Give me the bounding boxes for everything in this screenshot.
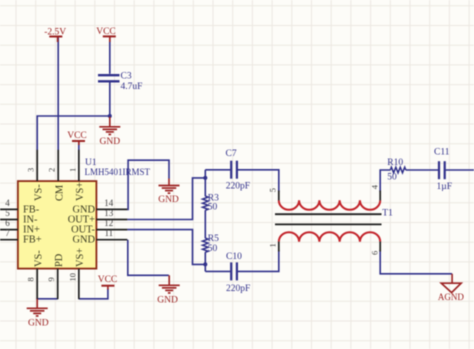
svg-text:10: 10 (67, 273, 77, 282)
svg-text:T1: T1 (382, 209, 393, 219)
svg-text:4.7uF: 4.7uF (121, 82, 143, 92)
svg-text:2: 2 (47, 168, 57, 172)
svg-text:FB+: FB+ (23, 235, 42, 246)
svg-text:11: 11 (104, 228, 113, 238)
svg-text:GND: GND (28, 319, 49, 329)
svg-text:12: 12 (104, 218, 113, 228)
svg-text:7: 7 (5, 228, 10, 238)
svg-text:4: 4 (5, 198, 10, 208)
svg-text:1: 1 (267, 243, 277, 247)
svg-text:5: 5 (267, 188, 277, 192)
svg-text:VCC: VCC (67, 131, 87, 141)
svg-text:13: 13 (104, 208, 114, 218)
svg-text:GND: GND (100, 137, 121, 147)
svg-text:50: 50 (208, 244, 218, 254)
svg-text:VCC: VCC (96, 27, 116, 37)
svg-text:CM: CM (54, 185, 65, 201)
svg-text:VCC: VCC (98, 275, 118, 285)
svg-text:3: 3 (26, 168, 36, 172)
svg-text:C3: C3 (121, 72, 132, 82)
svg-text:6: 6 (370, 251, 380, 255)
svg-text:GND: GND (157, 296, 178, 306)
svg-text:50: 50 (387, 172, 397, 182)
svg-text:PD: PD (54, 253, 65, 267)
svg-text:220pF: 220pF (226, 182, 250, 192)
svg-text:8: 8 (26, 277, 36, 281)
svg-text:9: 9 (46, 277, 56, 281)
svg-text:6: 6 (5, 218, 10, 228)
svg-text:R10: R10 (387, 158, 403, 168)
svg-text:5: 5 (5, 208, 10, 218)
svg-text:C10: C10 (226, 252, 242, 262)
svg-text:GND: GND (158, 195, 179, 205)
svg-text:VS+: VS+ (75, 248, 86, 267)
svg-text:1: 1 (67, 168, 77, 172)
svg-text:-2.5V: -2.5V (44, 27, 66, 37)
svg-text:GND: GND (72, 235, 95, 246)
svg-text:C11: C11 (434, 148, 450, 158)
svg-text:1µF: 1µF (437, 182, 453, 192)
svg-text:R5: R5 (208, 234, 219, 244)
svg-text:14: 14 (104, 198, 114, 208)
svg-text:AGND: AGND (438, 292, 464, 302)
svg-text:LMH5401IRMST: LMH5401IRMST (85, 167, 151, 177)
svg-text:VS-: VS- (33, 184, 44, 201)
svg-text:VS-: VS- (33, 250, 44, 267)
svg-text:220pF: 220pF (226, 284, 250, 294)
svg-text:VS+: VS+ (75, 182, 86, 201)
svg-text:50: 50 (208, 203, 218, 213)
svg-text:C7: C7 (226, 149, 237, 159)
